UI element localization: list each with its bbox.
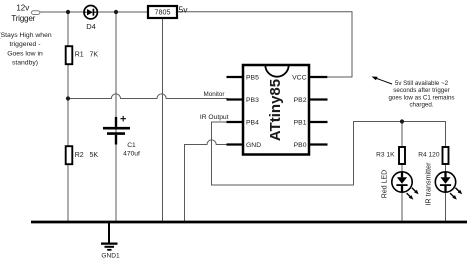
- pin PB0 stub: [294, 142, 328, 149]
- svg-text:Goes low in: Goes low in: [7, 50, 43, 57]
- pin PB4 stub: [227, 120, 260, 127]
- resistor R3: [376, 147, 405, 164]
- wire GND pin to bus with hop: [185, 140, 229, 221]
- svg-text:PB5: PB5: [246, 75, 259, 82]
- pin GND stub: [227, 142, 262, 149]
- svg-text:D4: D4: [86, 22, 96, 31]
- wire 12v input rail: [40, 11, 148, 13]
- svg-text:GND: GND: [246, 142, 261, 149]
- pin PB3 stub: [227, 97, 260, 104]
- svg-text:triggered -: triggered -: [10, 41, 41, 48]
- wire Monitor with hops: [68, 94, 228, 99]
- svg-text:IR Output: IR Output: [200, 114, 229, 121]
- label Monitor: [204, 91, 225, 98]
- svg-text:(Stays High when: (Stays High when: [0, 32, 52, 39]
- ground bus: [31, 221, 467, 224]
- annotation C1 note: [388, 80, 454, 109]
- svg-text:Monitor: Monitor: [204, 91, 225, 98]
- svg-text:R4 120: R4 120: [418, 152, 440, 159]
- svg-text:GND1: GND1: [101, 253, 120, 260]
- regulator 7805: [148, 6, 177, 18]
- node junction dot above R1: [66, 10, 70, 14]
- svg-text:seconds after trigger: seconds after trigger: [393, 87, 449, 94]
- net label 5v: [179, 5, 189, 15]
- svg-text:PB2: PB2: [294, 97, 307, 104]
- wire R3 LED branch: [401, 122, 403, 222]
- wire 7805 ground vertical: [162, 18, 164, 221]
- pin PB1 stub: [294, 120, 328, 127]
- resistor R4: [418, 147, 448, 164]
- node junction dot C1 tap: [114, 10, 118, 14]
- annotation arrow to VCC wire: [372, 77, 393, 85]
- wire IR Output from PB4 to LED rail: [212, 122, 447, 186]
- svg-text:standby): standby): [12, 60, 38, 67]
- node junction dot R3 branch: [400, 119, 404, 123]
- wire C1 branch vertical: [115, 12, 117, 221]
- diode D4: [84, 6, 97, 32]
- pin PB5 stub: [227, 75, 260, 82]
- svg-text:PB4: PB4: [246, 120, 259, 127]
- label trigger note: [0, 32, 52, 67]
- svg-text:PB1: PB1: [294, 120, 307, 127]
- node 12v Trigger connector: [32, 11, 40, 15]
- svg-text:Trigger: Trigger: [11, 14, 35, 23]
- LED D2 IR transmitter: [424, 162, 463, 206]
- LED D1 Red LED: [382, 170, 419, 200]
- svg-text:PB0: PB0: [294, 142, 307, 149]
- pin VCC stub: [292, 75, 327, 82]
- node junction dot Monitor tap: [66, 96, 70, 100]
- svg-text:5v Still available ~2: 5v Still available ~2: [395, 80, 449, 87]
- resistor R2: [66, 146, 99, 164]
- wire 5v rail from 7805 to VCC: [177, 12, 352, 77]
- svg-text:C1: C1: [127, 142, 136, 149]
- svg-text:7805: 7805: [155, 8, 171, 17]
- resistor R1: [66, 46, 99, 64]
- capacitor C1: [103, 114, 140, 158]
- wire R4 LED branch: [445, 122, 447, 222]
- pin PB2 stub: [294, 97, 328, 104]
- svg-text:IR transmitter: IR transmitter: [424, 162, 433, 206]
- op-amp U1 ATtiny85 body: [243, 65, 309, 155]
- svg-text:12v: 12v: [16, 3, 29, 12]
- svg-text:charged.: charged.: [409, 102, 433, 109]
- wire trigger divider vertical: [67, 12, 69, 221]
- svg-text:R1 7K: R1 7K: [75, 52, 99, 59]
- svg-text:R2 5K: R2 5K: [75, 152, 99, 159]
- svg-text:PB3: PB3: [246, 97, 259, 104]
- svg-text:VCC: VCC: [292, 75, 306, 82]
- ground GND1: [101, 222, 120, 260]
- svg-text:goes low as C1 remains: goes low as C1 remains: [388, 94, 454, 101]
- svg-text:+: +: [120, 114, 126, 126]
- svg-text:ATtiny85: ATtiny85: [267, 79, 284, 141]
- svg-text:Red LED: Red LED: [382, 170, 389, 198]
- svg-text:470uf: 470uf: [123, 151, 140, 158]
- label IR Output: [200, 114, 229, 121]
- svg-text:5v: 5v: [179, 5, 189, 15]
- label 12v Trigger: [11, 3, 35, 23]
- svg-text:R3 1K: R3 1K: [376, 152, 395, 159]
